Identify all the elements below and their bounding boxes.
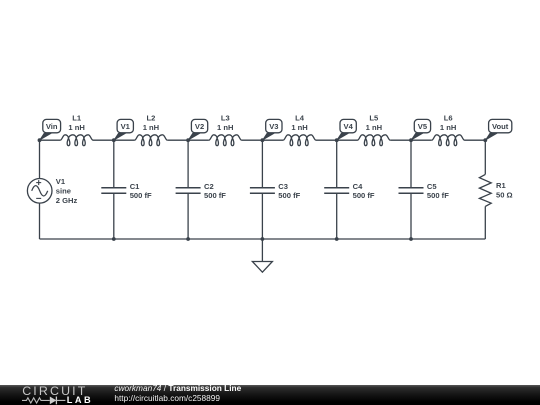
node V4: [335, 119, 356, 142]
node V1: [112, 119, 133, 142]
resistor R1 50 ohm: [479, 174, 512, 206]
capacitor C3 500 fF: [250, 182, 301, 200]
svg-text:C2: C2: [204, 182, 214, 191]
svg-text:C1: C1: [130, 182, 140, 191]
svg-text:V5: V5: [418, 122, 428, 131]
svg-text:1 nH: 1 nH: [291, 123, 307, 132]
svg-text:Vin: Vin: [46, 122, 58, 131]
wire V2 to L3: [188, 139, 209, 141]
wire V1 to L2: [114, 139, 135, 141]
node V2: [186, 119, 207, 142]
wire V4 to L5: [337, 139, 358, 141]
wire C4 to ground rail: [336, 194, 338, 239]
wire L6 to Vout: [465, 139, 486, 141]
svg-text:L3: L3: [221, 114, 230, 123]
node Vout: [483, 119, 511, 142]
capacitor C4 500 fF: [324, 182, 375, 200]
svg-text:1 nH: 1 nH: [217, 123, 233, 132]
CircuitLab logo resistor-diode squiggle: [22, 395, 72, 405]
capacitor C5 500 fF: [399, 182, 450, 200]
wire C5 to ground rail: [410, 194, 412, 239]
svg-text:Vout: Vout: [492, 122, 509, 131]
svg-text:L6: L6: [444, 114, 453, 123]
wire L1 to V1: [93, 139, 114, 141]
ground: [252, 239, 272, 272]
wire V2 to C2: [187, 140, 189, 187]
inductor L2 1 nH: [135, 114, 168, 146]
inductor L5 1 nH: [358, 114, 391, 146]
wire L2 to V2: [167, 139, 188, 141]
footer bar: [0, 385, 540, 405]
svg-text:L5: L5: [369, 114, 379, 123]
wire bottom ground rail: [40, 238, 486, 240]
svg-text:500 fF: 500 fF: [204, 191, 226, 200]
CircuitLab logo LAB: [67, 396, 93, 404]
inductor L1 1 nH: [60, 114, 93, 146]
wire C2 to ground rail: [187, 194, 189, 239]
inductor L4 1 nH: [283, 114, 316, 146]
svg-text:V2: V2: [195, 122, 204, 131]
svg-text:R1: R1: [496, 181, 506, 190]
wire L4 to V4: [316, 139, 337, 141]
wire V1 to C1: [113, 140, 115, 187]
svg-text:C4: C4: [353, 182, 363, 191]
footer url: [114, 394, 220, 403]
inductor L3 1 nH: [209, 114, 242, 146]
wire Vin to L1: [40, 139, 61, 141]
junction C2 bottom: [186, 237, 190, 241]
wire V5 to C5: [410, 140, 412, 187]
wire L3 to V3: [242, 139, 263, 141]
capacitor C2 500 fF: [176, 182, 227, 200]
node V3: [261, 119, 283, 142]
svg-text:1 nH: 1 nH: [440, 123, 456, 132]
svg-text:C3: C3: [278, 182, 288, 191]
svg-text:L2: L2: [147, 114, 156, 123]
wire V5 to L6: [411, 139, 432, 141]
label V1 sine 2 GHz: [56, 177, 78, 205]
svg-text:500 fF: 500 fF: [278, 191, 300, 200]
junction C3 bottom: [261, 237, 265, 241]
junction C5 bottom: [409, 237, 413, 241]
svg-text:1 nH: 1 nH: [366, 123, 382, 132]
svg-text:2 GHz: 2 GHz: [56, 196, 78, 205]
svg-text:50 Ω: 50 Ω: [496, 190, 513, 199]
svg-text:C5: C5: [427, 182, 437, 191]
wire C1 to ground rail: [113, 194, 115, 239]
wire V3 to C3: [261, 140, 263, 187]
svg-text:1 nH: 1 nH: [143, 123, 159, 132]
inductor L6 1 nH: [432, 114, 465, 146]
capacitor C1 500 fF: [101, 182, 152, 200]
svg-text:1 nH: 1 nH: [68, 123, 84, 132]
junction C4 bottom: [335, 237, 339, 241]
wire V3 to L4: [262, 139, 283, 141]
node Vin: [38, 119, 61, 142]
wire C3 to ground rail: [261, 194, 263, 239]
svg-text:L4: L4: [295, 114, 305, 123]
wire L5 to V5: [390, 139, 411, 141]
svg-text:500 fF: 500 fF: [427, 191, 449, 200]
junction C1 bottom: [112, 237, 116, 241]
svg-text:V4: V4: [344, 122, 354, 131]
svg-text:V3: V3: [269, 122, 278, 131]
wire R1 to ground rail: [484, 206, 486, 239]
wire V4 to C4: [336, 140, 338, 187]
svg-text:V1: V1: [56, 177, 66, 186]
svg-text:500 fF: 500 fF: [130, 191, 152, 200]
voltage source V1 sine 2 GHz: [27, 140, 52, 239]
svg-text:sine: sine: [56, 187, 71, 196]
footer title cworkman74 / Transmission Line: [114, 384, 241, 393]
CircuitLab logo CIRCUIT: [22, 385, 87, 397]
svg-text:V1: V1: [121, 122, 131, 131]
wire Vout to R1: [484, 140, 486, 174]
svg-text:L1: L1: [72, 114, 82, 123]
node V5: [409, 119, 430, 142]
svg-text:500 fF: 500 fF: [353, 191, 375, 200]
